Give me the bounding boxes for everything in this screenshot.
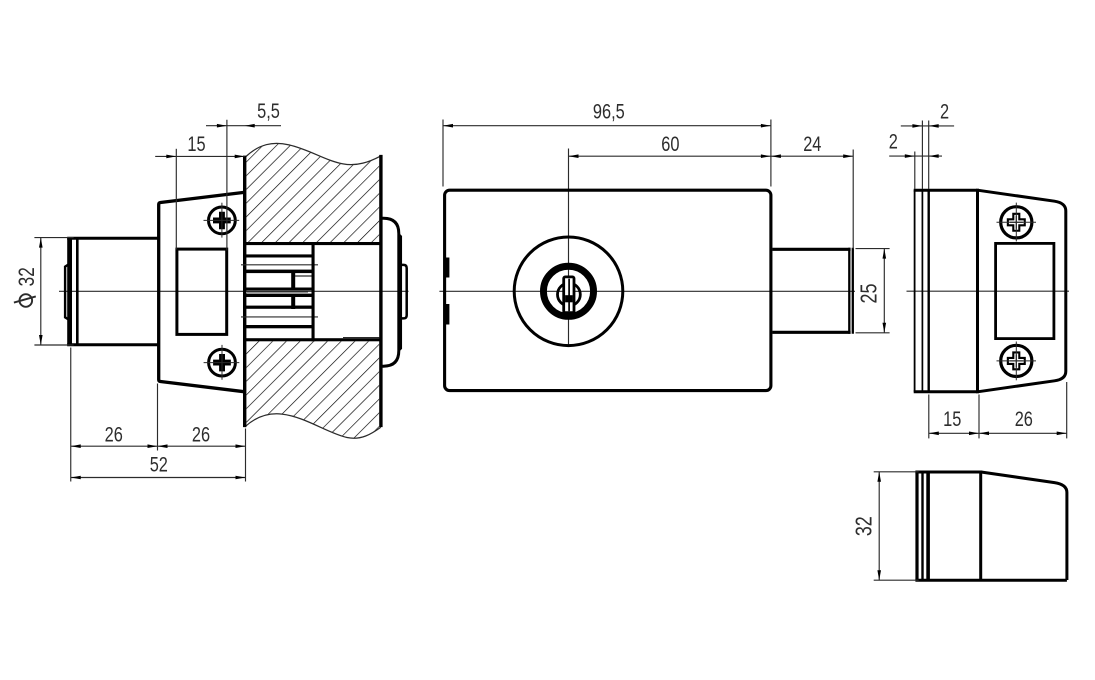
exterior knob face ring bbox=[399, 234, 401, 350]
centerline right view bbox=[907, 290, 1070, 292]
centerline left view bbox=[59, 290, 409, 292]
svg-text:32: 32 bbox=[851, 516, 877, 536]
svg-text:15: 15 bbox=[943, 407, 961, 430]
plate body outline bbox=[978, 190, 1066, 392]
lock body bbox=[445, 190, 771, 390]
door left face bbox=[243, 156, 246, 428]
latch mech bar 7 bbox=[245, 325, 312, 328]
keyhole outer circle bbox=[514, 237, 623, 346]
knob cylinder top edge bbox=[67, 237, 159, 240]
svg-text:60: 60 bbox=[661, 132, 679, 155]
door break line top bbox=[245, 143, 381, 164]
right screw top centerlines bbox=[997, 221, 1037, 223]
dim phi32 line bbox=[40, 238, 42, 345]
dim 25 line bbox=[883, 249, 885, 333]
right screw bottom centerlines bbox=[997, 360, 1037, 362]
svg-text:5,5: 5,5 bbox=[257, 99, 280, 122]
rosette plate outline bbox=[159, 192, 244, 391]
dim 32 line bbox=[878, 472, 880, 580]
cap line 3 bbox=[926, 472, 930, 580]
plate hole bbox=[996, 243, 1054, 338]
latch mech bar 3 bbox=[245, 270, 312, 274]
latch mech step upper bbox=[291, 272, 295, 290]
plate lip line 2 bbox=[928, 190, 930, 392]
dim 96,5 line bbox=[443, 125, 771, 127]
bore top boundary bbox=[245, 242, 381, 245]
svg-text:26: 26 bbox=[192, 422, 210, 445]
svg-text:25: 25 bbox=[856, 284, 882, 304]
right screw top circle bbox=[1001, 207, 1032, 238]
dim 32 extension bottom bbox=[874, 579, 919, 581]
bolt end lines bbox=[848, 248, 850, 334]
latch mech step lower bbox=[291, 294, 295, 309]
bore bottom boundary bbox=[245, 338, 381, 341]
screw bottom phillips cross bbox=[213, 354, 231, 371]
door hatch top bbox=[246, 144, 379, 439]
centerline middle bbox=[439, 290, 855, 292]
dim ext x928.7 bbox=[928, 121, 930, 190]
plate lip line 1 bbox=[921, 190, 923, 392]
dim 2 upper line bbox=[901, 125, 954, 127]
dim 60 line bbox=[569, 155, 771, 157]
exterior knob profile bbox=[382, 218, 399, 366]
svg-text:52: 52 bbox=[150, 452, 168, 475]
dim 96,5 extension right bbox=[770, 120, 772, 187]
dim extension x70.75 bbox=[70, 348, 72, 482]
dim extension x157.5 bbox=[157, 384, 159, 451]
divider vertical bbox=[979, 471, 982, 581]
cap line 1 bbox=[915, 472, 918, 580]
door right face bbox=[379, 155, 382, 427]
screw bottom centerlines bbox=[204, 362, 240, 364]
dim extension x245.5 bbox=[245, 429, 247, 482]
dim ext x979 bottom bbox=[978, 395, 980, 439]
knob slanted body bbox=[981, 472, 1067, 580]
interior knob cap outer bump bbox=[65, 263, 70, 321]
dim 15 extension bbox=[175, 149, 177, 250]
body edge nub top bbox=[444, 258, 449, 278]
svg-text:15: 15 bbox=[187, 132, 205, 155]
bolt top edge bbox=[773, 248, 851, 251]
svg-text:32: 32 bbox=[15, 267, 40, 286]
screw top phillips cross bbox=[213, 212, 231, 229]
latch mech bar upper-center bbox=[245, 288, 312, 291]
dim ext x922.4 bbox=[921, 121, 923, 190]
door hatch bottom bbox=[246, 341, 379, 438]
screw top centerlines bbox=[204, 219, 240, 221]
door break line bottom bbox=[245, 414, 381, 438]
latch mech center thin line bbox=[247, 291, 308, 293]
dim 24 extension bbox=[852, 150, 854, 250]
exterior knob cap tab bbox=[401, 265, 407, 319]
interior knob cap thick ring bbox=[67, 237, 72, 346]
svg-text:26: 26 bbox=[105, 422, 123, 445]
svg-text:2: 2 bbox=[889, 130, 898, 153]
cap line 2 bbox=[921, 472, 923, 580]
keyway middle line bbox=[568, 279, 570, 312]
plate bottom edge bbox=[914, 390, 978, 393]
right screw bottom cross outline bbox=[1008, 352, 1025, 369]
latch mech bar 2 bbox=[245, 254, 312, 257]
dim 52 line bbox=[71, 477, 246, 479]
plate left thin edge bbox=[914, 190, 916, 392]
dim 32 extension top bbox=[874, 471, 919, 473]
dim 2 lower line bbox=[889, 155, 942, 157]
keyway rect bbox=[564, 277, 574, 313]
dim 26 line bbox=[71, 445, 246, 447]
dim phi32 symbol bbox=[20, 294, 33, 307]
latch mech bar 6 bbox=[245, 306, 312, 309]
dim ext x1066.7 bottom bbox=[1066, 382, 1068, 438]
dim phi32 extension top bbox=[34, 237, 73, 239]
plate top edge bbox=[914, 189, 978, 192]
dim line right view bottom bbox=[929, 432, 1067, 434]
bolt bottom edge bbox=[773, 331, 851, 334]
svg-text:2: 2 bbox=[940, 99, 949, 122]
plate bend vertical bbox=[976, 189, 979, 394]
right screw top cross outline bbox=[1008, 214, 1025, 231]
keyway crossbar bbox=[565, 295, 573, 302]
dim 15 line bbox=[155, 155, 245, 157]
screw top circle bbox=[209, 207, 236, 234]
svg-text:96,5: 96,5 bbox=[593, 99, 625, 122]
svg-text:26: 26 bbox=[1015, 407, 1033, 430]
dim 5,5 extension bbox=[226, 120, 228, 251]
right screw bottom circle bbox=[1001, 345, 1032, 376]
knob cylinder bottom edge bbox=[67, 343, 159, 346]
latch mech bar lower-center bbox=[245, 294, 312, 297]
dim ext x928.8 bottom bbox=[928, 395, 930, 439]
dim 25 extension bottom bbox=[856, 332, 890, 334]
dim 25 extension top bbox=[856, 248, 890, 250]
keyhole cylinder ring bbox=[543, 266, 593, 316]
dim 96,5 extension left bbox=[442, 120, 444, 187]
rosette plate hole bbox=[177, 249, 227, 334]
top edge bbox=[915, 471, 981, 474]
latch mech right vertical bar bbox=[312, 242, 315, 341]
vertical centerline keyhole bbox=[568, 149, 570, 347]
dim phi32 extension bottom bbox=[34, 344, 73, 346]
bottom edge bbox=[915, 579, 1067, 582]
latch mech thin line upper bbox=[241, 264, 318, 266]
interior knob cap second ring bbox=[76, 237, 79, 346]
latch mech thin line lower bbox=[241, 316, 318, 318]
dim 24 line bbox=[771, 155, 853, 157]
body edge nub bottom bbox=[444, 304, 449, 325]
svg-text:24: 24 bbox=[803, 132, 821, 155]
keyhole small circle bbox=[558, 283, 581, 306]
screw bottom circle bbox=[209, 349, 236, 376]
dim ext gray x914.8 bbox=[914, 152, 916, 190]
latch mech bottom thin step bbox=[343, 337, 380, 339]
dim 5,5 line bbox=[206, 125, 281, 127]
